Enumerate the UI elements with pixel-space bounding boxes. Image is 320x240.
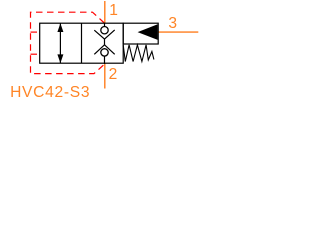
port 3 line [158,31,198,33]
return spring [123,45,154,62]
component boundary (red dashed envelope) [31,12,105,73]
check valve lower (ball in seat, mirrored) [94,45,114,64]
pilot stub upper (red dashed) [31,31,40,33]
port 1 line [104,1,106,23]
svg-text:3: 3 [168,15,177,32]
solenoid armature (filled triangle) [138,24,158,40]
svg-text:1: 1 [109,2,118,19]
solenoid coil box [123,23,158,44]
svg-text:HVC42-S3: HVC42-S3 [10,84,90,100]
check valve upper (ball in seat) [94,23,114,39]
node between checks [104,39,106,45]
valve envelope (2-position box) [40,23,124,63]
position divider [81,23,83,63]
flow arrow (double headed, open position) [57,23,63,63]
svg-text:2: 2 [109,66,118,83]
port 2 line [104,63,106,88]
pilot stub lower (red dashed) [31,53,40,55]
